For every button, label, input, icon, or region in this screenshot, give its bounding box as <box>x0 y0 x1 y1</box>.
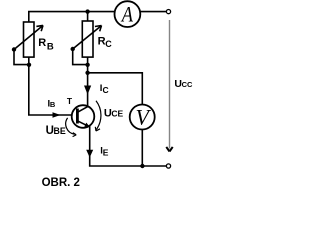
svg-text:B: B <box>50 100 56 109</box>
terminal: U_CC positive (top right) <box>166 10 170 14</box>
voltage arc U_BE <box>66 118 76 137</box>
svg-text:C: C <box>105 39 112 49</box>
svg-text:C: C <box>103 85 109 95</box>
resistor R_B (rheostat) <box>14 22 43 57</box>
svg-text:R: R <box>38 37 46 49</box>
voltage arrow U_CC (supply) <box>166 20 172 152</box>
wire voltmeter bottom <box>141 130 143 166</box>
wire top rail left segment <box>29 12 115 22</box>
wire R_C top lead <box>87 12 89 21</box>
label I_C <box>100 83 109 95</box>
svg-text:A: A <box>120 3 133 27</box>
wire R_C wiper return <box>73 49 88 65</box>
current arrow I_C <box>84 86 91 95</box>
node: voltmeter/bottom rail junction <box>140 164 144 168</box>
label U_CE <box>104 108 124 120</box>
svg-text:E: E <box>103 148 109 158</box>
node: collector/voltmeter junction <box>85 71 89 75</box>
wire voltmeter branch <box>88 73 143 104</box>
node: R_B wiper junction <box>12 47 16 51</box>
label R_C <box>98 36 113 49</box>
label I_E <box>100 145 109 157</box>
label U_CC <box>174 78 193 90</box>
resistor R_C (rheostat) <box>73 21 102 57</box>
svg-text:BE: BE <box>54 126 66 136</box>
label I_B <box>48 99 56 110</box>
node: R_B bottom junction <box>27 63 31 67</box>
svg-text:OBR. 2: OBR. 2 <box>42 177 80 189</box>
wire top rail right segment <box>141 11 167 13</box>
svg-text:CE: CE <box>111 109 123 119</box>
node: R_C bottom junction <box>85 63 89 67</box>
svg-text:CC: CC <box>182 80 193 89</box>
ammeter A <box>115 1 141 27</box>
current arrow I_B <box>53 112 61 118</box>
terminal: U_CC negative (bottom right) <box>166 164 170 168</box>
svg-text:B: B <box>47 41 54 52</box>
transistor T <box>72 105 95 128</box>
svg-text:T: T <box>67 96 73 106</box>
node: R_C wiper junction <box>71 47 75 51</box>
voltage arc U_CE <box>95 101 101 131</box>
wire emitter lead <box>90 127 167 166</box>
label R_B <box>38 37 54 52</box>
node: top rail / R_C junction <box>85 9 89 13</box>
label U_BE <box>46 125 66 137</box>
current arrow I_E <box>86 150 93 158</box>
wire R_B bottom lead to base <box>29 57 72 115</box>
wire collector lead <box>87 57 89 107</box>
voltmeter V <box>130 104 155 129</box>
wire R_B wiper return <box>14 50 29 65</box>
